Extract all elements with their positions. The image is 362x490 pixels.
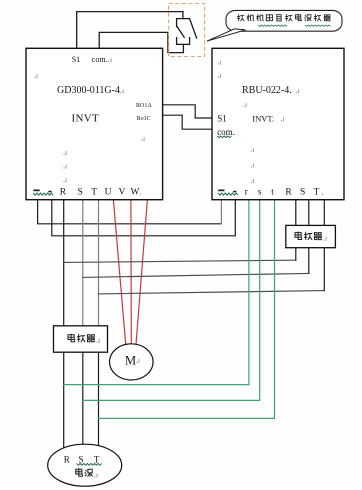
paragraph mark (35, 77, 36, 78)
svg-text:R: R (285, 187, 292, 197)
wire t green (99, 200, 275, 419)
svg-text:U: U (105, 187, 112, 197)
inverter U1 box (26, 48, 163, 199)
source squiggle (77, 463, 102, 465)
svg-text:V: V (118, 187, 125, 197)
paragraph mark (218, 63, 219, 64)
paragraph mark (64, 181, 65, 182)
svg-text:GD300-011G-4: GD300-011G-4 (57, 85, 120, 96)
braking unit U2 box (212, 48, 344, 199)
svg-text:.: . (140, 188, 142, 196)
svg-text:com.: com. (217, 127, 235, 137)
paragraph mark (142, 140, 143, 141)
svg-text:S: S (300, 187, 305, 197)
wire reactor2 R riser (295, 200, 297, 260)
wire T phase main (lower) (98, 330, 100, 446)
paragraph mark (281, 120, 282, 121)
paragraph mark (296, 92, 297, 93)
wire reactor2 S riser (308, 200, 310, 274)
paragraph mark (251, 182, 252, 183)
wire U motor (red) (113, 200, 125, 344)
switch K1 (177, 19, 197, 45)
paragraph mark (218, 77, 219, 78)
label power source (dian-yuan) (76, 469, 98, 478)
label reactor L1 (dian-kang-qi) (68, 334, 100, 343)
reactor L2 box (286, 225, 336, 247)
wire L1 R-to-reactor2 (64, 260, 296, 262)
wire Ro1C-to-com (163, 115, 213, 129)
com spellcheck squiggle (217, 136, 231, 138)
paragraph mark (64, 154, 65, 155)
svg-text:W: W (131, 187, 140, 197)
svg-text:R: R (60, 187, 67, 197)
wire bus-bond (52, 200, 236, 236)
svg-text:T: T (314, 187, 320, 197)
svg-text:com.: com. (92, 55, 108, 64)
svg-text:S1: S1 (217, 114, 227, 124)
wire L2 S-to-reactor2 (83, 273, 309, 277)
wire com-to-switch-bottom (99, 32, 183, 52)
svg-text:r: r (245, 186, 248, 196)
wire S phase main (lower) (82, 330, 84, 445)
callout tail (207, 29, 246, 41)
svg-text:S: S (77, 187, 82, 197)
power source ellipse (48, 444, 122, 486)
wire V motor (red) (130, 200, 132, 344)
paragraph mark (109, 61, 110, 62)
label reactor L2 (dian-kang-qi) (295, 232, 327, 241)
svg-text:S: S (78, 454, 83, 464)
paragraph mark (121, 92, 122, 93)
wire reactor2 T riser (323, 200, 325, 291)
svg-text:S1: S1 (72, 55, 80, 64)
wire ground-bond riser (gray) (220, 200, 222, 224)
callout text (hoist auxiliary contact note) (238, 14, 331, 26)
wire W motor (red) (136, 200, 147, 344)
svg-text:RBU-022-4.: RBU-022-4. (242, 85, 292, 96)
paragraph mark (251, 151, 252, 152)
paragraph mark (244, 106, 245, 107)
wire S phase main (upper gray) (82, 200, 84, 330)
wire S1-to-switch-top (77, 12, 183, 49)
svg-text:Ro1C: Ro1C (137, 116, 151, 122)
svg-text:INVT.: INVT. (252, 113, 274, 123)
svg-text:.: . (322, 188, 324, 196)
svg-text:INVT: INVT (72, 112, 99, 124)
svg-text:T: T (94, 454, 100, 464)
paragraph mark (251, 166, 252, 167)
wire s green (83, 200, 260, 401)
wire ground-bond (38, 200, 222, 224)
motor M ellipse (110, 344, 154, 380)
paragraph mark (64, 167, 65, 168)
wire R phase main (63, 200, 65, 448)
ground terminal (U1) (33, 190, 53, 196)
wire RO1A-to-S1 (163, 105, 213, 118)
svg-text:R: R (64, 454, 70, 464)
wire L3 T-to-reactor2 (99, 291, 325, 294)
ground terminal (U2) (218, 190, 238, 196)
wire T phase main (upper gray) (98, 200, 100, 330)
svg-text:M: M (125, 354, 136, 368)
dashed relay enclosure (169, 4, 205, 57)
callout bubble (226, 10, 342, 31)
wire r green (64, 200, 249, 385)
reactor L1 box (54, 326, 108, 352)
svg-text:s: s (258, 186, 262, 196)
svg-text:RO1A: RO1A (136, 103, 152, 109)
svg-text:T: T (91, 187, 97, 197)
